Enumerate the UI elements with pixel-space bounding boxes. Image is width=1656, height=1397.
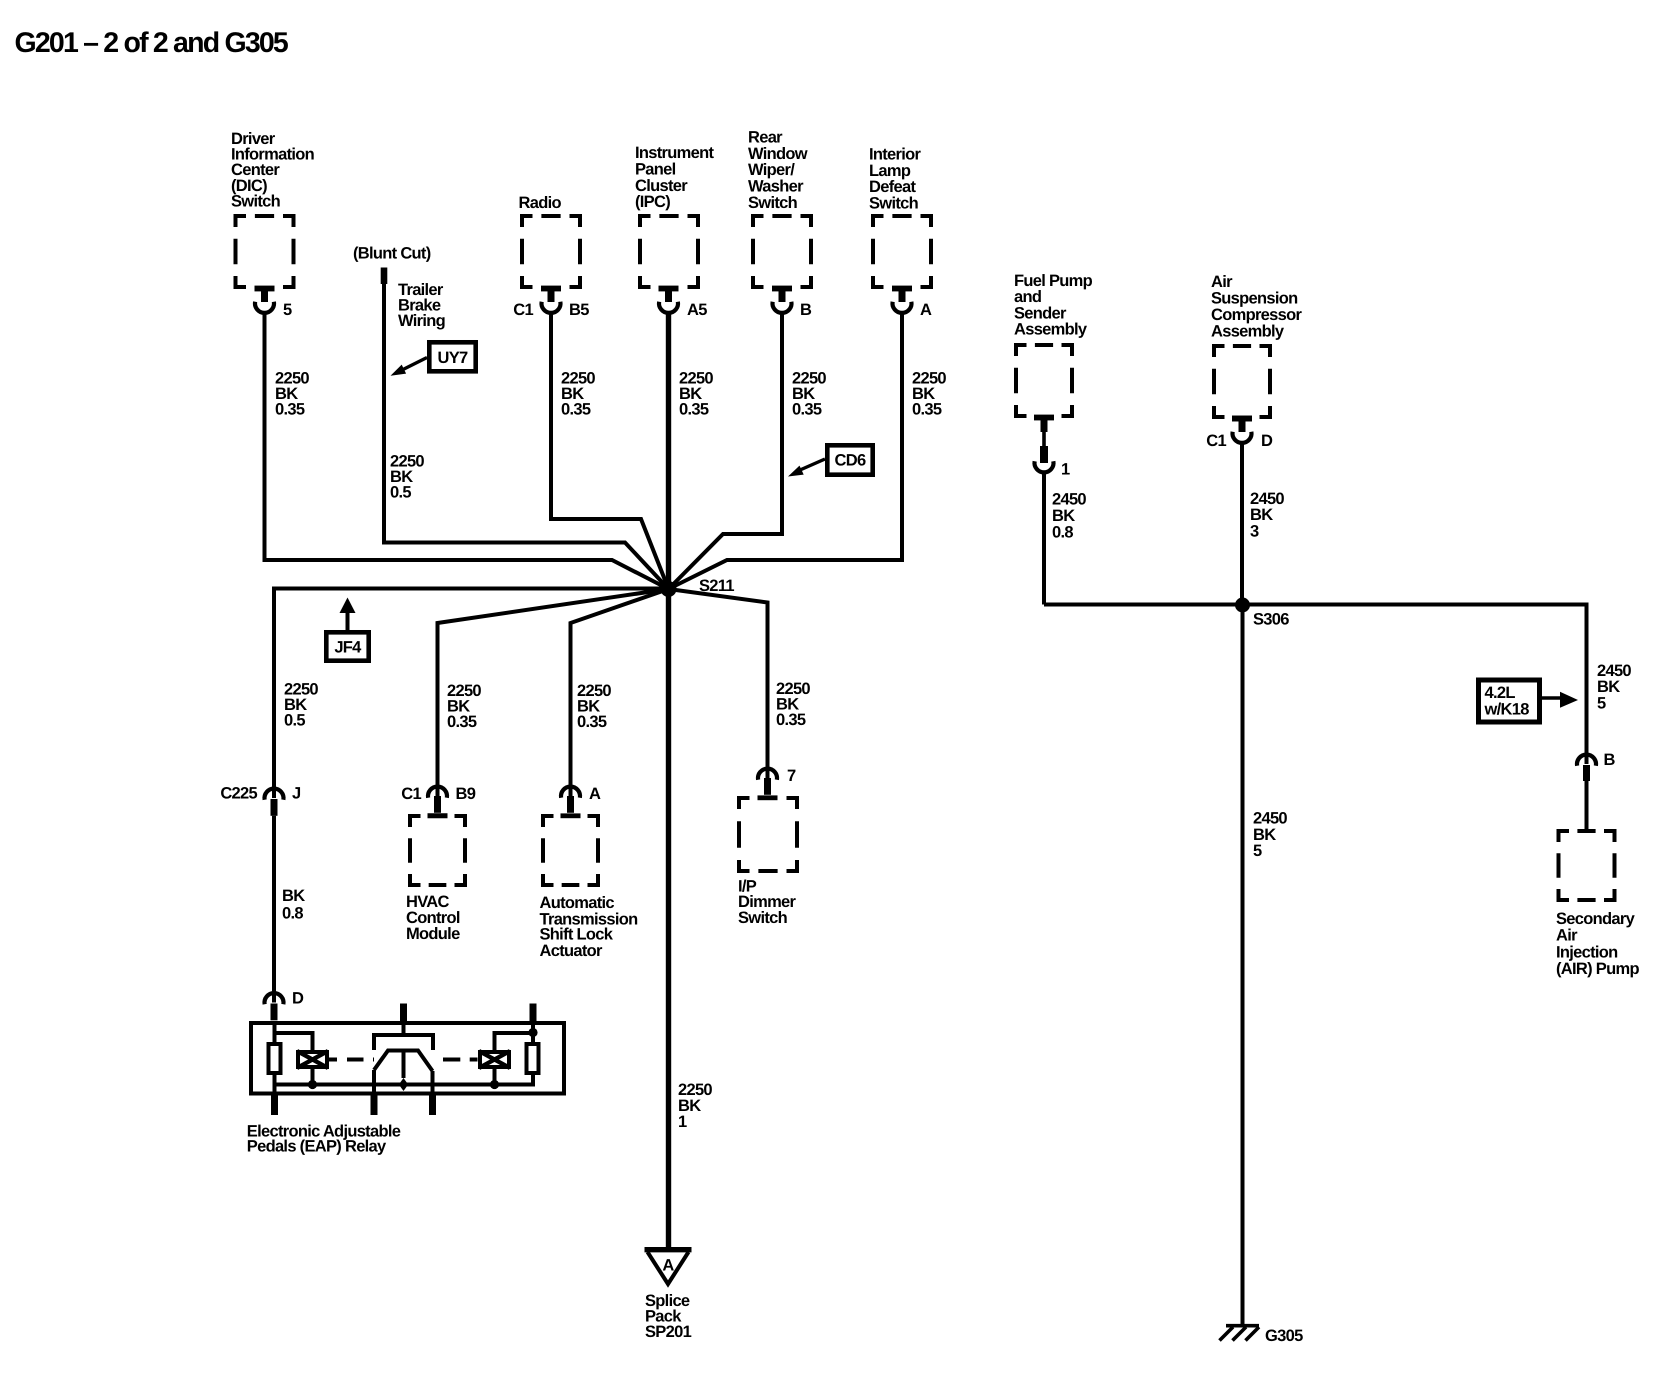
relay right pin (top) stub and internal wire <box>530 1004 537 1087</box>
wire label 2250 BK 0.35 (DIC) <box>275 370 309 419</box>
svg-text:Actuator: Actuator <box>540 942 604 960</box>
svg-text:Cluster: Cluster <box>635 177 688 195</box>
title text G201 - 2 of 2 and G305 <box>15 27 289 59</box>
option code box JF4 with arrow to C225 branch wire <box>326 598 368 661</box>
wire label 2250 BK 0.35 (shift lock) <box>577 682 611 731</box>
svg-text:Injection: Injection <box>1556 943 1618 961</box>
svg-text:Radio: Radio <box>519 194 562 212</box>
wire label 2450 BK 3 <box>1250 490 1284 541</box>
svg-text:(AIR) Pump: (AIR) Pump <box>1556 960 1639 978</box>
connector C225 pin J (inline) <box>220 785 301 816</box>
svg-text:A: A <box>920 301 932 319</box>
component Automatic Transmission Shift Lock Actuator box <box>540 813 639 960</box>
relay outline Electronic Adjustable Pedals (EAP) Relay <box>247 1023 564 1156</box>
svg-text:BK: BK <box>1597 678 1620 696</box>
svg-text:0.35: 0.35 <box>561 401 591 419</box>
junction dot right coil / bus <box>490 1080 499 1089</box>
svg-text:A: A <box>662 1257 674 1275</box>
svg-text:1: 1 <box>678 1113 687 1131</box>
svg-text:2450: 2450 <box>1597 662 1631 680</box>
component Driver Information Center (DIC) Switch box <box>231 130 315 289</box>
wire air compressor D to S306 <box>1240 443 1244 606</box>
svg-text:D: D <box>292 990 304 1008</box>
svg-text:Secondary: Secondary <box>1556 910 1636 928</box>
svg-text:B: B <box>1604 751 1616 769</box>
component Instrument Panel Cluster (IPC) box <box>635 144 714 289</box>
svg-text:Pedals (EAP) Relay: Pedals (EAP) Relay <box>247 1138 387 1156</box>
svg-text:Switch: Switch <box>738 909 788 927</box>
option code box 4.2L w/K18 with arrow <box>1479 680 1579 722</box>
relay internal bottom bus wire <box>275 1083 534 1087</box>
svg-text:B9: B9 <box>456 785 476 803</box>
svg-text:0.35: 0.35 <box>776 711 806 729</box>
relay dashed actuation line right <box>443 1058 478 1062</box>
junction dot right pin / coil feed <box>528 1028 537 1037</box>
svg-text:5: 5 <box>1253 842 1262 860</box>
svg-text:Module: Module <box>406 925 460 943</box>
svg-text:Rear: Rear <box>748 129 783 147</box>
relay movable contact arm <box>374 1051 433 1092</box>
svg-text:SP201: SP201 <box>645 1323 692 1341</box>
wire label 2250 BK 0.5 (C225 branch) <box>284 681 318 730</box>
component Secondary Air Injection (AIR) Pump box <box>1556 829 1639 978</box>
svg-text:S306: S306 <box>1253 610 1289 628</box>
svg-text:C1: C1 <box>1206 432 1226 450</box>
component HVAC Control Module box <box>406 813 467 942</box>
wire label 2250 BK 0.35 (HVAC) <box>447 682 481 731</box>
connector pin B of secondary AIR pump (inline) <box>1577 751 1616 781</box>
wire label 2250 BK 0.35 (rear wiper) <box>792 370 826 419</box>
relay dashed actuation line left <box>329 1058 375 1062</box>
wire left coil to bottom bus <box>311 1067 315 1083</box>
component Rear Window Wiper/Washer Switch box <box>748 129 813 290</box>
wire S211 to connector C225 branch <box>274 589 669 799</box>
wire label 2450 BK 5 (right) <box>1597 662 1631 713</box>
svg-text:D: D <box>1261 432 1273 450</box>
svg-text:Assembly: Assembly <box>1014 321 1088 339</box>
wire trailer brake blunt cut to S211 <box>384 284 669 590</box>
relay right coil feed wire <box>495 1033 534 1050</box>
svg-text:(IPC): (IPC) <box>635 193 670 211</box>
splice pack SP201 triangle symbol <box>645 1250 692 1341</box>
svg-text:2450: 2450 <box>1250 490 1284 508</box>
option code box CD6 with arrow to rear wiper wire <box>788 445 873 476</box>
svg-text:(Blunt Cut): (Blunt Cut) <box>353 245 431 263</box>
splice S306 junction dot <box>1235 598 1289 629</box>
svg-text:Instrument: Instrument <box>635 144 714 162</box>
splice S211 junction dot <box>661 577 735 597</box>
svg-text:2450: 2450 <box>1052 491 1086 509</box>
resistor left (inside EAP relay) <box>269 1044 281 1073</box>
svg-text:CD6: CD6 <box>835 452 866 470</box>
coil left (inside EAP relay) <box>297 1051 328 1068</box>
svg-text:Washer: Washer <box>748 178 804 196</box>
svg-text:Automatic: Automatic <box>540 894 615 912</box>
svg-text:0.8: 0.8 <box>1052 524 1073 542</box>
svg-text:Air: Air <box>1211 273 1233 291</box>
junction dot left coil / bus <box>308 1080 317 1089</box>
option code box UY7 with arrow to trailer brake wire <box>391 342 476 376</box>
svg-text:0.35: 0.35 <box>275 401 305 419</box>
svg-text:0.35: 0.35 <box>679 401 709 419</box>
svg-text:0.35: 0.35 <box>792 401 822 419</box>
component Fuel Pump and Sender Assembly box <box>1014 272 1093 420</box>
wire label 2250 BK 0.35 (radio) <box>561 370 595 419</box>
svg-text:A5: A5 <box>687 301 707 319</box>
wire rear wiper B to S211 <box>669 313 783 590</box>
component Radio box <box>519 194 583 289</box>
connector pin 5 of DIC switch <box>255 286 293 319</box>
svg-text:0.35: 0.35 <box>912 401 942 419</box>
svg-text:BK: BK <box>282 887 305 905</box>
svg-text:0.35: 0.35 <box>577 713 607 731</box>
component I/P Dimmer Switch box <box>737 795 799 927</box>
svg-text:3: 3 <box>1250 523 1259 541</box>
svg-text:2450: 2450 <box>1253 810 1287 828</box>
wire IPC A5 to splice pack SP201 (main vertical) <box>666 313 671 1250</box>
svg-text:Wiring: Wiring <box>398 312 445 330</box>
connector pin A of interior lamp defeat switch <box>892 286 932 319</box>
relay common pin (top centre) and guide bracket <box>374 1004 433 1051</box>
wire label 2250 BK 0.5 (trailer) <box>390 453 424 502</box>
wire label 2250 BK 0.35 (dimmer) <box>776 680 810 729</box>
wire Radio B5 to S211 <box>551 313 669 590</box>
svg-text:B5: B5 <box>569 301 589 319</box>
wire label 2250 BK 1 (below S211) <box>678 1081 712 1131</box>
svg-text:Wiper/: Wiper/ <box>748 161 795 179</box>
wire ground bus S306 to AIR pump branch <box>1044 605 1587 765</box>
wire S211 to I/P dimmer switch <box>669 589 768 778</box>
resistor right (inside EAP relay) <box>527 1044 539 1073</box>
svg-text:A: A <box>589 785 601 803</box>
svg-text:Switch: Switch <box>231 193 281 211</box>
svg-text:w/K18: w/K18 <box>1484 701 1530 719</box>
svg-text:Suspension: Suspension <box>1211 290 1298 308</box>
connector pin A5 of IPC <box>659 286 708 319</box>
svg-text:5: 5 <box>283 301 292 319</box>
svg-text:B: B <box>800 301 812 319</box>
svg-text:1: 1 <box>1061 461 1070 479</box>
connector pin 1 of fuel pump (inline stub + cup) <box>1035 418 1071 479</box>
connector C1 pin D of air suspension compressor <box>1206 416 1273 450</box>
connector pin D at EAP relay (inline) <box>265 990 305 1021</box>
connector C1 pin B5 of Radio <box>513 286 589 319</box>
wire S211 to HVAC control module <box>438 589 669 798</box>
svg-text:Switch: Switch <box>869 194 919 212</box>
svg-text:Compressor: Compressor <box>1211 306 1302 324</box>
svg-text:C1: C1 <box>401 785 421 803</box>
svg-text:0.5: 0.5 <box>390 484 411 502</box>
svg-text:G201 – 2 of 2 and G305: G201 – 2 of 2 and G305 <box>15 27 289 59</box>
svg-text:BK: BK <box>1250 506 1273 524</box>
svg-text:UY7: UY7 <box>438 349 469 367</box>
relay switch pin right (bottom) with stub <box>429 1071 436 1115</box>
relay pin D internal wire and bottom pin stub <box>271 1021 278 1115</box>
blunt cut stub / trailer brake wiring <box>353 245 445 331</box>
svg-text:Panel: Panel <box>635 161 676 179</box>
relay left coil feed wire <box>275 1033 313 1050</box>
svg-text:BK: BK <box>1253 826 1276 844</box>
ground G305 symbol <box>1220 1326 1304 1345</box>
connector C1 pin B9 of HVAC control module <box>401 785 475 818</box>
svg-text:G305: G305 <box>1265 1327 1303 1345</box>
wire label BK 0.8 <box>282 887 305 922</box>
svg-text:C225: C225 <box>220 785 257 803</box>
wire B connector to AIR pump box <box>1585 781 1589 831</box>
wire DIC pin 5 to S211 <box>265 313 669 590</box>
component Interior Lamp Defeat Switch box <box>869 146 933 289</box>
coil right (inside EAP relay) <box>479 1051 510 1068</box>
svg-text:Interior: Interior <box>869 146 922 164</box>
svg-text:0.5: 0.5 <box>284 712 305 730</box>
svg-text:Defeat: Defeat <box>869 178 916 196</box>
svg-text:7: 7 <box>787 767 796 785</box>
wire S306 to ground G305 <box>1241 605 1245 1325</box>
wire interior lamp A to S211 <box>669 313 903 590</box>
wire label 2450 BK 5 (to ground) <box>1253 810 1287 861</box>
wire S211 to shift lock actuator <box>571 589 669 798</box>
wire fuel pump 1 to S306 <box>1042 472 1046 605</box>
svg-text:J: J <box>292 785 301 803</box>
wire right coil to bottom bus <box>493 1067 497 1083</box>
svg-text:4.2L: 4.2L <box>1485 684 1516 702</box>
svg-text:Air: Air <box>1556 927 1578 945</box>
svg-text:0.35: 0.35 <box>447 713 477 731</box>
svg-text:0.8: 0.8 <box>282 904 303 922</box>
connector pin 7 of I/P dimmer switch <box>758 767 796 795</box>
svg-text:BK: BK <box>1052 507 1075 525</box>
svg-text:Switch: Switch <box>748 194 798 212</box>
connector pin A of shift lock actuator <box>561 785 601 813</box>
svg-text:5: 5 <box>1597 695 1606 713</box>
svg-text:JF4: JF4 <box>334 639 362 657</box>
svg-text:Window: Window <box>748 145 808 163</box>
wire label 2250 BK 0.35 (IPC) <box>679 370 713 419</box>
svg-text:Shift Lock: Shift Lock <box>540 926 614 944</box>
wire label 2450 BK 0.8 <box>1052 491 1086 542</box>
svg-text:C1: C1 <box>513 301 533 319</box>
connector pin B of rear wiper/washer switch <box>772 286 812 319</box>
wire label 2250 BK 0.35 (interior lamp) <box>912 370 946 419</box>
wire C225 J to relay pin D <box>272 816 276 1003</box>
component Air Suspension Compressor Assembly box <box>1211 273 1302 421</box>
svg-text:Assembly: Assembly <box>1211 323 1285 341</box>
relay switch pin left (bottom) with stub <box>371 1070 378 1115</box>
